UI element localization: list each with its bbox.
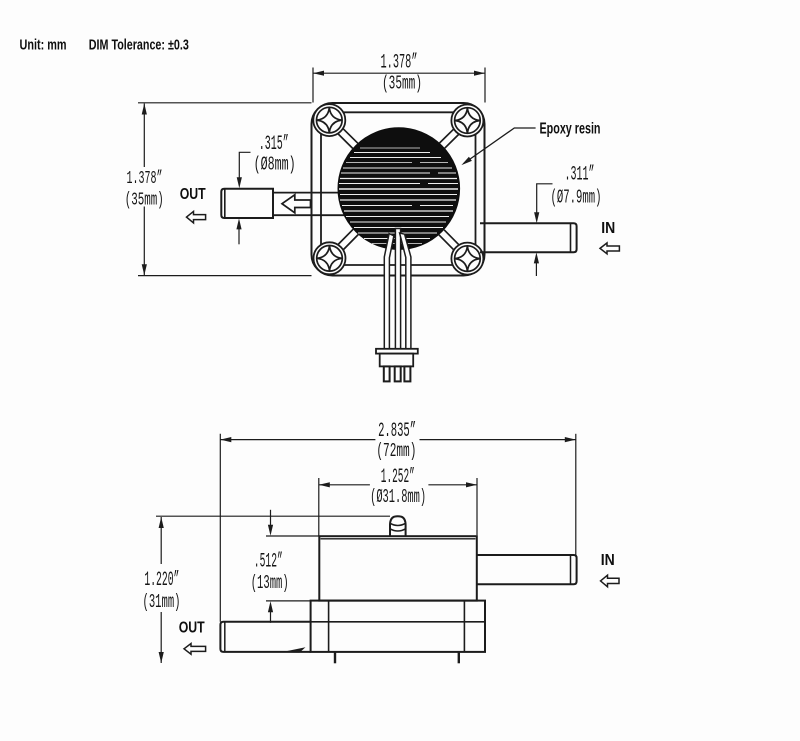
connector flange bbox=[376, 349, 418, 354]
svg-text:(31mm): (31mm) bbox=[143, 591, 181, 613]
corner brace TL bbox=[338, 129, 358, 149]
svg-text:DIM Tolerance: ±0.3: DIM Tolerance: ±0.3 bbox=[89, 37, 189, 54]
svg-text:(72mm): (72mm) bbox=[376, 440, 416, 462]
dim: left height arrowheads bbox=[142, 104, 147, 115]
svg-text:1.378”: 1.378” bbox=[381, 52, 418, 75]
in tube end cap line bbox=[570, 224, 572, 252]
out tube end cap line bbox=[224, 189, 226, 217]
screw TL bbox=[313, 104, 345, 136]
svg-text:.512”: .512” bbox=[254, 551, 283, 574]
svg-text:OUT: OUT bbox=[179, 620, 205, 637]
corner brace BL bbox=[338, 229, 358, 249]
in tube (side view) bbox=[477, 555, 577, 584]
flat arrow on out tube bbox=[281, 647, 306, 652]
out port inner tube walls bbox=[273, 193, 346, 216]
svg-text:IN: IN bbox=[601, 552, 615, 569]
dim text 1.378 top bbox=[378, 52, 420, 69]
dim: out tube diameter bracket bbox=[239, 152, 250, 184]
corner brace TR bbox=[439, 129, 458, 148]
dim: overall width extension right bbox=[575, 434, 577, 555]
svg-text:(13mm): (13mm) bbox=[251, 572, 289, 594]
dim: in tube diameter lower arrow bbox=[535, 257, 537, 277]
connector pin 1 bbox=[384, 366, 390, 381]
mounting foot right bbox=[458, 652, 460, 663]
mounting foot left bbox=[334, 652, 336, 663]
dim: height line bbox=[160, 517, 162, 663]
OUT arrow (side view) bbox=[184, 644, 206, 655]
epoxy resin blob bbox=[338, 128, 460, 250]
dim: body width extension left bbox=[318, 478, 320, 536]
svg-text:Epoxy resin: Epoxy resin bbox=[540, 121, 601, 138]
svg-text:(Ø7.9mm): (Ø7.9mm) bbox=[551, 187, 602, 209]
connector body bbox=[380, 354, 414, 367]
svg-text:(35mm): (35mm) bbox=[382, 73, 422, 95]
corner brace BR bbox=[439, 230, 459, 250]
svg-text:Unit: mm: Unit: mm bbox=[20, 37, 67, 54]
dim: overall width arrowheads bbox=[220, 437, 231, 442]
in tube end cap line (side view) bbox=[570, 556, 572, 584]
top nub bbox=[390, 516, 406, 536]
svg-text:.311”: .311” bbox=[565, 164, 595, 187]
nub seam arcs bbox=[390, 523, 406, 531]
svg-text:(35mm): (35mm) bbox=[125, 191, 164, 211]
dim: height top extension line bbox=[156, 515, 390, 517]
connector pin 2 bbox=[395, 366, 401, 381]
screw BL bbox=[314, 242, 346, 274]
OUT small arrow (top view) bbox=[187, 211, 206, 223]
dim: height arrowheads bbox=[159, 517, 164, 528]
dim: body height bottom arrow bbox=[270, 606, 272, 623]
IN small arrow (top view) bbox=[600, 243, 619, 254]
out flow arrow (open, in tube) bbox=[282, 195, 311, 213]
connector pin 3 bbox=[404, 366, 410, 381]
flange inner vertical right bbox=[463, 601, 465, 652]
dim: top width arrowheads bbox=[313, 71, 324, 76]
IN arrow (side view) bbox=[601, 575, 620, 587]
housing outer square bbox=[312, 103, 485, 276]
dim: top width line bbox=[313, 72, 485, 74]
dim: in tube diameter bracket bbox=[537, 184, 553, 219]
dim: body width extension right bbox=[476, 478, 478, 535]
dim: flange top extension bbox=[266, 600, 311, 602]
body top seam line bbox=[321, 538, 476, 540]
dim: body top extension bbox=[266, 535, 319, 537]
out tube end cap line (side view) bbox=[224, 622, 226, 651]
dim: left height line bbox=[143, 104, 145, 276]
dim: overall width line bbox=[220, 439, 576, 441]
flange inner vertical left bbox=[328, 601, 330, 652]
svg-text:(Ø8mm): (Ø8mm) bbox=[254, 154, 296, 176]
svg-text:IN: IN bbox=[601, 220, 615, 237]
flange inner horizontal bbox=[311, 621, 485, 623]
screw BR bbox=[451, 243, 483, 275]
dim: body width line bbox=[319, 484, 477, 486]
out tube outer barrel bbox=[221, 189, 273, 218]
dim: overall width extension left bbox=[219, 434, 221, 622]
dim: top width extension lines bbox=[313, 68, 485, 103]
svg-text:(Ø31.8mm): (Ø31.8mm) bbox=[370, 486, 426, 508]
dim: out tube diameter lower arrow bbox=[238, 223, 240, 245]
svg-text:.315”: .315” bbox=[259, 133, 289, 156]
wire 3 (right) bbox=[400, 233, 411, 349]
svg-text:1.378”: 1.378” bbox=[127, 169, 163, 189]
blob highlight streaks bbox=[339, 148, 458, 244]
epoxy resin leader bbox=[464, 128, 536, 164]
dim: body height top arrow bbox=[270, 510, 272, 532]
housing inner square bbox=[321, 112, 476, 265]
in tube barrel bbox=[480, 223, 577, 252]
svg-text:1.220”: 1.220” bbox=[144, 569, 179, 592]
body box bbox=[319, 536, 477, 600]
base flange bbox=[311, 601, 485, 652]
dim: left height extension lines bbox=[138, 103, 312, 276]
wire 2 (middle) bbox=[395, 229, 400, 349]
svg-text:OUT: OUT bbox=[180, 186, 206, 203]
dim: body width arrowheads bbox=[319, 482, 330, 487]
screw TR bbox=[451, 105, 483, 137]
wire 1 (left) bbox=[384, 234, 394, 349]
out tube (side view) bbox=[220, 622, 310, 652]
